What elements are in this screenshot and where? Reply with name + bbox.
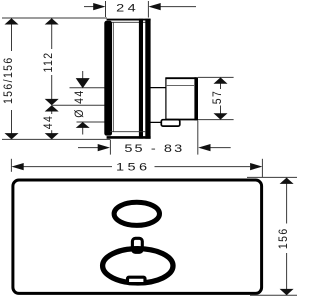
svg-text:Ø 44: Ø 44 [73, 89, 86, 117]
dimension Ø44 arrow up (outside, below sleeve bottom) [76, 122, 90, 128]
dimension 156/156 arrow down [5, 133, 19, 139]
extension line: sleeve top (for Ø44) [70, 87, 105, 89]
extension line: handle centre (112/44 junction) [52, 104, 105, 106]
dimension 112 line [51, 18, 53, 99]
dimension 44 arrow up (at junction) [45, 105, 59, 111]
dimension Ø44 line tails [82, 71, 84, 135]
dimension 112 arrow up [45, 18, 59, 24]
dimension 44 arrow down [45, 133, 59, 139]
handle head bottom edge [165, 119, 198, 121]
dimension 24 left tail+arrow [84, 6, 94, 8]
wall plate side view: front bar B (glass) [145, 19, 150, 139]
wall plate side view: rear face thin line [112, 23, 114, 133]
handle grip tab (chimney) [132, 238, 142, 252]
handle (lower ellipse) [103, 249, 173, 283]
handle head front bar (right thick edge) [194, 77, 198, 120]
dimension 57 extension line bottom [198, 119, 234, 121]
dimension Ø44 arrow down (outside, above sleeve top) [76, 78, 90, 88]
dimension 57 arrow up [214, 77, 228, 83]
svg-text:24: 24 [116, 1, 139, 14]
dimension 24 extension line right [147, 1, 149, 18]
dimension 55-83 extension line left [109, 140, 111, 155]
dimension 156 (top) arrow left [11, 163, 23, 170]
dimension 24 right tail+arrow [160, 6, 196, 8]
dimension 57 arrow down [214, 113, 228, 119]
wall plate side view: rear seal bar (left thick bar) [104, 21, 112, 136]
extension line: sleeve bottom (for Ø44) [77, 121, 105, 123]
dimension 156 (top) extension line right [261, 159, 263, 178]
dimension 156 (top) extension line left [10, 159, 12, 172]
svg-text:44: 44 [42, 115, 55, 129]
dimension 156 (top) arrow right [250, 163, 262, 170]
dimension 156 (right) arrow up [280, 178, 294, 184]
handle bottom clip [128, 277, 146, 283]
svg-text:55 - 83: 55 - 83 [124, 142, 184, 155]
handle bottom button tab [161, 120, 180, 126]
dimension 156 (right) extension line bottom [250, 294, 297, 296]
front plate outline [13, 180, 262, 293]
handle sleeve bottom edge [149, 121, 166, 123]
dimension 156 (right) line [286, 178, 288, 295]
dimension 55-83 extension line right [197, 121, 199, 155]
handle head top edge [165, 77, 196, 79]
svg-text:156: 156 [116, 160, 151, 173]
svg-text:156/156: 156/156 [2, 56, 15, 104]
handle head left edge [165, 78, 167, 122]
wall plate side view: inner bottom line [110, 131, 146, 133]
extension line: plate top edge, to left [2, 17, 107, 19]
handle head chamfer line [167, 85, 194, 87]
svg-text:156: 156 [277, 227, 290, 249]
dimension 156 (right) arrow down [280, 289, 294, 295]
dimension 55-83 right tail+arrow [210, 147, 231, 149]
handle sleeve top edge [149, 87, 166, 89]
thermostat dial (upper ellipse) [114, 202, 159, 225]
dimension 57 line [220, 78, 222, 120]
wall plate side view: front bar A [139, 19, 143, 139]
extension line: plate bottom, to left [2, 138, 111, 140]
dimension 156 (top) line [23, 166, 250, 168]
wall plate side view: bottom edge [107, 136, 151, 139]
dimension 24 extension line left [105, 1, 107, 17]
dimension 156/156 arrow up [5, 18, 19, 24]
dimension 156/156 line [11, 18, 13, 139]
dimension 156 (right) extension line top [247, 176, 297, 178]
dimension 112 arrow down (at junction) [45, 99, 59, 105]
wall plate side view: top edge [107, 19, 151, 21]
dimension 44 line [51, 111, 53, 139]
dimension 55-83 left tail+arrow [78, 147, 98, 149]
svg-text:112: 112 [42, 52, 55, 73]
wall plate side view: inner top line [110, 21, 146, 23]
dimension 57 extension line top [198, 76, 234, 78]
svg-text:57: 57 [211, 90, 224, 104]
